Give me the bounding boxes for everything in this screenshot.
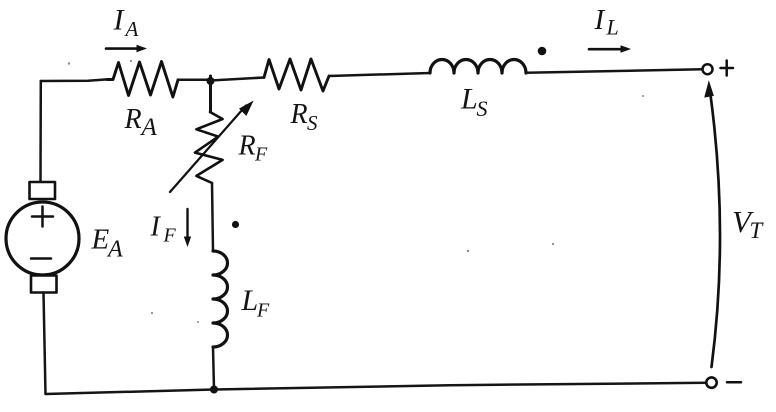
- svg-text:R: R: [290, 99, 308, 130]
- wire R_F to L_F: [212, 183, 213, 251]
- svg-text:A: A: [124, 17, 139, 41]
- terminal plus (open circle): [703, 64, 713, 74]
- svg-text:R: R: [238, 131, 256, 162]
- svg-text:T: T: [750, 218, 765, 243]
- svg-text:S: S: [307, 111, 318, 135]
- svg-text:L: L: [241, 284, 259, 317]
- resistor R_A: [107, 62, 178, 98]
- minus sign at bottom terminal: [727, 381, 741, 384]
- brush top of machine E_A: [30, 182, 56, 199]
- terminal minus (open circle): [706, 377, 716, 387]
- svg-text:R: R: [124, 104, 142, 135]
- svg-text:S: S: [477, 96, 488, 121]
- resistor R_S: [264, 59, 329, 91]
- arrow through R_F: [170, 106, 246, 193]
- plus sign at top terminal: [721, 61, 734, 76]
- wire junction to R_S: [211, 78, 265, 81]
- current arrow I_F: [186, 209, 188, 239]
- svg-text:I: I: [594, 4, 606, 36]
- svg-text:I: I: [113, 4, 126, 37]
- svg-text:E: E: [91, 224, 110, 256]
- wire L_S to plus terminal: [526, 69, 703, 72]
- wire top-left horizontal: [41, 79, 107, 81]
- svg-text:A: A: [106, 237, 123, 263]
- minus mark inside E_A: [31, 257, 51, 260]
- machine E_A body: [6, 202, 79, 275]
- current arrow I_A: [106, 47, 138, 50]
- wire R_A to junction: [178, 79, 211, 82]
- wire left vertical bottom (E_A bottom lead): [44, 293, 46, 395]
- polarity dot of L_S: [538, 47, 547, 56]
- svg-text:I: I: [150, 211, 162, 242]
- polarity dot of L_F: [232, 221, 239, 228]
- svg-text:F: F: [163, 224, 177, 246]
- brush bottom of machine E_A: [31, 276, 57, 293]
- wire L_F to bottom node: [213, 347, 214, 390]
- svg-text:L: L: [460, 83, 478, 116]
- svg-text:F: F: [256, 300, 270, 322]
- svg-text:F: F: [254, 144, 268, 166]
- current arrow I_L: [589, 48, 622, 51]
- rheostat R_F (variable resistor): [195, 112, 223, 183]
- node junction bottom: [210, 386, 218, 394]
- node junction top (field tap): [209, 76, 212, 112]
- plus mark inside E_A: [32, 207, 53, 227]
- wire left vertical (E_A top lead): [39, 81, 42, 182]
- wire R_S to L_S: [329, 73, 430, 76]
- wire bottom horizontal: [46, 383, 707, 394]
- voltage arrow V_T: [711, 95, 721, 367]
- svg-text:A: A: [140, 114, 158, 141]
- inductor L_S: [430, 60, 526, 74]
- scan specks (noise): [68, 60, 644, 323]
- svg-text:L: L: [606, 15, 619, 40]
- inductor L_F: [213, 251, 228, 347]
